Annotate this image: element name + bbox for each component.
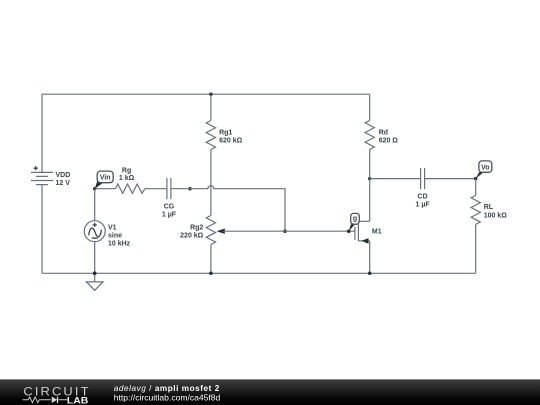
svg-text:620 kΩ: 620 kΩ <box>219 138 243 145</box>
label g <box>349 213 360 231</box>
svg-text:Vo: Vo <box>481 164 489 171</box>
node Vo <box>474 177 478 181</box>
wire drain <box>369 179 371 222</box>
wire Rg to CG <box>145 188 167 190</box>
battery VDD <box>31 166 70 187</box>
svg-text:V1: V1 <box>108 224 117 231</box>
svg-text:Rg2: Rg2 <box>190 224 203 231</box>
svg-text:Rg1: Rg1 <box>219 129 232 136</box>
wire left rail <box>41 94 43 172</box>
svg-text:g: g <box>353 216 357 223</box>
label Vin <box>95 171 114 189</box>
wire source to bottom rail <box>369 241 371 273</box>
wire drain to CD <box>370 178 421 180</box>
wire CD to Vo <box>425 178 476 180</box>
svg-text:adelavg / ampli mosfet 2: adelavg / ampli mosfet 2 <box>114 384 220 393</box>
svg-text:Vin: Vin <box>100 175 111 182</box>
svg-text:sine: sine <box>108 233 122 240</box>
svg-text:1 kΩ: 1 kΩ <box>119 175 135 182</box>
node Vin <box>93 187 97 191</box>
svg-text:http://circuitlab.com/ca45f8d: http://circuitlab.com/ca45f8d <box>114 394 221 403</box>
svg-text:CG: CG <box>164 203 175 210</box>
svg-text:1 µF: 1 µF <box>162 212 177 219</box>
logo squiggle <box>23 397 68 403</box>
svg-text:100 kΩ: 100 kΩ <box>484 212 508 219</box>
capacitor CD <box>416 168 431 209</box>
voltage source V1 <box>84 189 130 274</box>
svg-text:LAB: LAB <box>67 396 88 405</box>
svg-text:VDD: VDD <box>56 172 71 179</box>
resistor Rg <box>115 167 144 193</box>
junction bottom ground <box>93 272 97 276</box>
svg-text:1 µF: 1 µF <box>416 202 431 209</box>
wire Rg1 to Rg2 <box>210 150 212 216</box>
wire top rail <box>42 93 370 95</box>
wire bottom rail <box>42 272 476 274</box>
wire wiper to gate <box>223 230 355 232</box>
wire Vin to Rg <box>95 188 116 190</box>
resistor RL <box>471 179 507 274</box>
junction top rail <box>209 92 213 96</box>
potentiometer Rg2 <box>180 216 225 274</box>
footer bar <box>0 379 540 405</box>
resistor Rd <box>365 94 398 178</box>
svg-text:620 Ω: 620 Ω <box>379 138 399 145</box>
label Vo <box>476 161 492 179</box>
svg-text:12 V: 12 V <box>56 180 71 187</box>
svg-text:M1: M1 <box>372 229 382 236</box>
svg-text:Rg: Rg <box>122 167 131 174</box>
svg-text:220 kΩ: 220 kΩ <box>180 233 204 240</box>
wire battery to bottom rail <box>41 185 43 274</box>
ground <box>87 272 103 291</box>
node gate <box>347 229 351 233</box>
junction bottom source <box>368 272 372 276</box>
resistor Rg1 <box>206 94 242 149</box>
mosfet M1 <box>355 221 382 243</box>
svg-text:Rd: Rd <box>379 129 388 136</box>
junction wiper node <box>283 229 287 233</box>
svg-text:RL: RL <box>484 204 494 211</box>
junction drain node <box>368 177 372 181</box>
svg-text:10 kHz: 10 kHz <box>108 241 131 248</box>
svg-text:CD: CD <box>418 193 428 200</box>
junction bottom Rg2 <box>209 272 213 276</box>
capacitor CG <box>162 178 177 219</box>
wire CG to gate bend with hop <box>171 186 285 231</box>
junction after CG <box>188 187 192 191</box>
